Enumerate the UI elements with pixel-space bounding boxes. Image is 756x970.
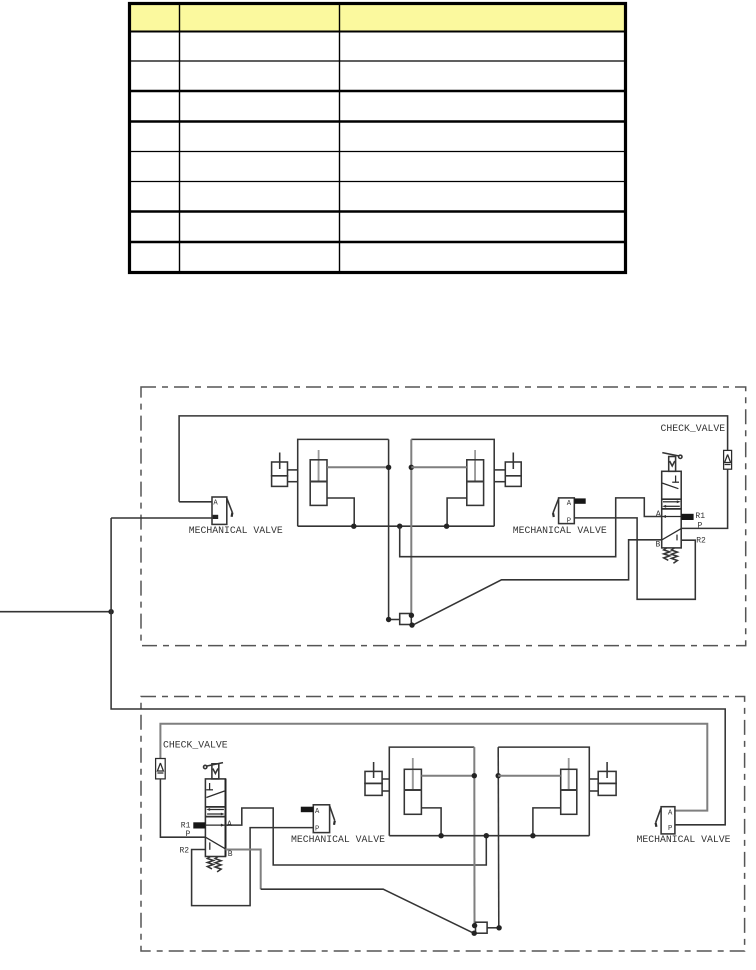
pilot valve PV2 bbox=[505, 453, 521, 487]
svg-text:CHECK_VALVE: CHECK_VALVE bbox=[163, 740, 228, 751]
wire U1 B to distributor bbox=[413, 540, 662, 625]
svg-text:R2: R2 bbox=[696, 536, 706, 545]
actuator (roller lever) U2 bbox=[204, 763, 224, 779]
cylinder group 2 frame wire bbox=[411, 439, 494, 526]
actuator (roller lever) U1 bbox=[662, 453, 682, 472]
spring U1 bbox=[664, 548, 678, 563]
distributor block D2 bbox=[476, 922, 500, 933]
wire group2 left drop (grey) bbox=[410, 439, 412, 615]
junction D1 left bbox=[386, 617, 391, 622]
wire group1 right drop bbox=[388, 439, 390, 619]
wire U1 A to cylinder bus bbox=[400, 498, 662, 557]
wire CYL4 lower port bbox=[533, 808, 561, 836]
junction D2 bottom left bbox=[472, 931, 477, 936]
wire PV2 lower stub bbox=[494, 481, 505, 483]
cylinder group 4 frame wire bbox=[498, 747, 589, 836]
svg-text:A: A bbox=[567, 500, 572, 508]
wire PV4 stubs bbox=[589, 778, 598, 780]
junction bottom bus 2 bbox=[444, 524, 449, 529]
wire CV1 to P port bbox=[681, 469, 727, 528]
cylinder CYL3 bbox=[404, 758, 421, 814]
wire CV2 to P port bbox=[160, 779, 205, 837]
junction bottom bus 5 bbox=[484, 833, 489, 838]
wire CYL3 lower port bbox=[421, 808, 441, 836]
wire PV3 stubs bbox=[382, 778, 389, 780]
check valve CV1 bbox=[724, 450, 732, 469]
wire PV3 lower stub bbox=[382, 790, 389, 792]
svg-text:R1: R1 bbox=[695, 512, 705, 521]
mechanical valve V3 bbox=[301, 805, 335, 834]
wire PV1 lower stub bbox=[288, 481, 298, 483]
supply wire from page left bbox=[0, 611, 111, 613]
svg-text:P: P bbox=[698, 522, 703, 531]
wire U2 A to cylinder bus bbox=[226, 808, 487, 865]
wire CYL1 lower port bbox=[327, 498, 354, 526]
cylinder group 1 frame wire bbox=[298, 439, 389, 526]
junction D1 top right bbox=[409, 613, 414, 618]
wire U2 R2 loop to V3 P bbox=[192, 828, 314, 906]
junction bottom bus 6 bbox=[530, 833, 535, 838]
svg-text:MECHANICAL VALVE: MECHANICAL VALVE bbox=[513, 525, 607, 536]
check valve CV2 bbox=[156, 759, 166, 779]
junction supply node bbox=[108, 609, 113, 614]
cylinder CYL2 bbox=[467, 450, 484, 505]
cylinder CYL4 bbox=[561, 758, 577, 814]
wire PV4 lower stub bbox=[589, 790, 598, 792]
wire circuit 2 top manifold bbox=[160, 724, 707, 811]
junction D2 top left bbox=[472, 923, 477, 928]
wire U2 B to distributor bbox=[226, 850, 261, 890]
wire CYL2 lower port bbox=[447, 498, 467, 526]
mechanical valve V2 bbox=[553, 498, 586, 526]
wire group3 right drop (grey) bbox=[473, 747, 475, 926]
supply trunk wire to circuit 2 bbox=[111, 518, 725, 825]
wire U2 B diagonal bbox=[261, 889, 474, 933]
junction CYL1 net bbox=[386, 465, 391, 470]
circuit 2 enclosure (dashed) bbox=[141, 697, 745, 952]
wire circuit2 bottom bus bbox=[389, 835, 589, 837]
svg-text:A: A bbox=[656, 510, 661, 519]
svg-text:P: P bbox=[668, 825, 672, 833]
mechanical valve V4 bbox=[656, 807, 675, 834]
junction CYL4 net bbox=[496, 773, 501, 778]
mechanical valve V1 bbox=[212, 497, 232, 524]
wire V1 A feed bbox=[179, 501, 212, 503]
svg-text:MECHANICAL VALVE: MECHANICAL VALVE bbox=[637, 834, 731, 845]
wire CYL3 upper port bbox=[421, 775, 474, 777]
silencer R1 (U1) bbox=[681, 514, 693, 520]
svg-text:MECHANICAL VALVE: MECHANICAL VALVE bbox=[189, 525, 283, 536]
junction bottom bus 4 bbox=[438, 833, 443, 838]
pilot valve PV4 bbox=[598, 762, 616, 795]
parts table bbox=[130, 4, 626, 273]
wire circuit1 bottom bus bbox=[298, 525, 495, 527]
cylinder CYL1 bbox=[310, 450, 327, 505]
svg-text:CHECK_VALVE: CHECK_VALVE bbox=[661, 423, 726, 434]
svg-text:R2: R2 bbox=[180, 847, 190, 856]
valve stack U1 (5/2 valve) bbox=[662, 471, 682, 548]
wire group4 left drop bbox=[497, 747, 500, 928]
junction CYL3 net bbox=[472, 773, 477, 778]
svg-text:P: P bbox=[315, 825, 319, 833]
svg-text:B: B bbox=[228, 850, 233, 859]
cylinder group 3 frame wire bbox=[389, 747, 474, 836]
svg-text:A: A bbox=[668, 810, 673, 818]
junction D1 bottom right bbox=[409, 622, 414, 627]
distributor block D1 bbox=[389, 614, 412, 625]
junction group2 bbox=[409, 465, 414, 470]
svg-text:A: A bbox=[315, 808, 320, 816]
wire circuit 1 top manifold bbox=[179, 416, 728, 502]
junction D2 right bbox=[496, 925, 501, 930]
wire CYL4 upper port bbox=[498, 775, 561, 777]
junction bottom bus 1 bbox=[351, 524, 356, 529]
wire valve V1 P feed bbox=[111, 517, 212, 519]
svg-text:P: P bbox=[186, 830, 191, 839]
pilot valve PV1 bbox=[272, 453, 288, 487]
pilot valve PV3 bbox=[365, 762, 382, 795]
circuit 1 enclosure (dashed) bbox=[141, 387, 746, 646]
wire CYL2 upper port bbox=[411, 466, 467, 468]
wire PV1 stubs bbox=[288, 469, 298, 471]
svg-text:MECHANICAL VALVE: MECHANICAL VALVE bbox=[291, 834, 385, 845]
wire V2 P to R2 loop bbox=[574, 518, 695, 599]
junction bottom bus 3 bbox=[397, 524, 402, 529]
svg-text:A: A bbox=[213, 500, 218, 508]
wire CYL1 upper port bbox=[327, 466, 389, 468]
spring U2 bbox=[207, 857, 221, 872]
valve stack U2 (5/2 valve) bbox=[205, 779, 225, 857]
svg-text:B: B bbox=[656, 540, 661, 549]
silencer R1 (U2) bbox=[193, 822, 205, 828]
wire PV2 stubs bbox=[494, 469, 505, 471]
